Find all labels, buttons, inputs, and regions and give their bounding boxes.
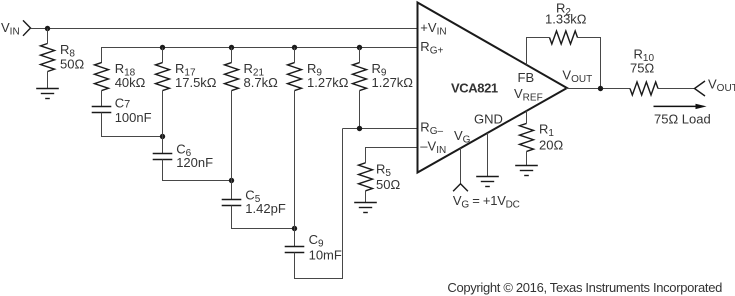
wire -VIN to amp <box>366 148 419 163</box>
wire R21 to C5 <box>231 91 233 200</box>
svg-text:75Ω: 75Ω <box>630 60 654 75</box>
svg-text:100nF: 100nF <box>115 110 152 125</box>
node rail R21 <box>229 45 234 50</box>
svg-text:VCA821: VCA821 <box>451 81 498 96</box>
resistor R1 <box>520 123 534 151</box>
label R10 75ohm <box>630 46 654 75</box>
output terminal VOUT chevron <box>695 81 706 96</box>
resistor R5 <box>359 163 373 191</box>
ground R5 <box>354 203 377 213</box>
label C6 120nF <box>176 141 213 170</box>
svg-text:50Ω: 50Ω <box>60 57 84 72</box>
label R2 1.33kohm <box>545 0 587 26</box>
capacitor C6 <box>153 154 173 160</box>
svg-text:FB: FB <box>518 70 535 85</box>
wire +VIN rail <box>31 28 419 30</box>
label C5 1.42pF <box>245 188 286 217</box>
label R9b 1.27kohm <box>372 61 414 90</box>
node RG- junction <box>357 126 362 131</box>
wire R9a to C9 <box>294 91 296 247</box>
node C <box>292 226 297 231</box>
ground R1 <box>515 166 538 176</box>
wire R8 top lead <box>47 29 49 44</box>
wire R10 to output <box>658 88 695 90</box>
label C9 10mF <box>309 232 342 263</box>
resistor R21 <box>225 63 239 91</box>
wire FB feedback loop <box>527 38 601 89</box>
svg-text:Copyright © 2016, Texas Instru: Copyright © 2016, Texas Instruments Inco… <box>447 280 722 295</box>
svg-text:1.27kΩ: 1.27kΩ <box>372 75 414 90</box>
node rail R9a <box>292 45 297 50</box>
svg-text:20Ω: 20Ω <box>539 137 563 152</box>
wire GND lead <box>487 133 489 177</box>
label R18 40kohm <box>115 61 146 90</box>
wire C7 to node A <box>102 113 163 137</box>
wire R9a top lead <box>294 48 296 63</box>
wire C6 to node B <box>163 160 232 181</box>
wire VOUT to R10 <box>566 88 630 90</box>
svg-text:1.27kΩ: 1.27kΩ <box>307 75 349 90</box>
node VOUT junction <box>598 86 603 91</box>
svg-text:75Ω Load: 75Ω Load <box>654 112 711 127</box>
wire C5 to node C <box>232 206 295 229</box>
svg-text:17.5kΩ: 17.5kΩ <box>175 75 217 90</box>
node B <box>229 178 234 183</box>
wire RG+ rail <box>102 48 419 64</box>
label R17 17.5kohm <box>175 61 217 90</box>
VG terminal chevron <box>453 184 468 192</box>
svg-text:8.7kΩ: 8.7kΩ <box>244 75 279 90</box>
svg-text:40kΩ: 40kΩ <box>115 75 146 90</box>
svg-text:C7: C7 <box>115 96 131 111</box>
wire R8 bottom lead <box>47 72 49 89</box>
wire VREF lead <box>526 111 528 124</box>
svg-text:10mF: 10mF <box>309 248 342 263</box>
resistor R10 <box>630 82 658 95</box>
node rail R17 <box>160 45 165 50</box>
svg-text:1.33kΩ: 1.33kΩ <box>545 11 587 26</box>
arrow load direction <box>654 104 707 109</box>
label R1 20ohm <box>539 121 563 152</box>
node rail R9b <box>357 45 362 50</box>
wire R9b bottom lead <box>359 91 361 129</box>
wire R21 top lead <box>231 48 233 63</box>
label R8 50ohm <box>60 42 84 71</box>
wire R1 bottom lead <box>526 151 528 165</box>
label R5 50ohm <box>376 162 400 192</box>
resistor R9b <box>353 63 367 91</box>
svg-text:50Ω: 50Ω <box>376 177 400 192</box>
capacitor C5 <box>222 200 242 206</box>
wire VG lead <box>460 148 462 183</box>
wire R18 to C7 <box>101 91 103 107</box>
resistor R8 <box>41 44 55 72</box>
capacitor C7 <box>92 107 112 113</box>
resistor R2 <box>550 31 578 44</box>
resistor R18 <box>95 63 109 91</box>
resistor R17 <box>156 63 170 91</box>
ground R8 <box>36 89 59 99</box>
wire C9 to RG- net <box>295 129 343 279</box>
wire R9b top lead <box>359 48 361 63</box>
svg-text:GND: GND <box>474 112 503 127</box>
ground GND pin <box>476 177 499 187</box>
wire R5 bottom lead <box>365 191 367 203</box>
node input junction <box>45 26 50 31</box>
label C7 100nF <box>115 96 152 126</box>
resistor R9a <box>288 63 302 91</box>
wire R17 top lead <box>162 48 164 63</box>
label R21 8.7kohm <box>244 61 279 90</box>
svg-text:1.42pF: 1.42pF <box>245 201 286 216</box>
node A <box>160 134 165 139</box>
input terminal VIN chevron <box>23 20 31 35</box>
svg-text:120nF: 120nF <box>176 155 213 170</box>
capacitor C9 <box>285 247 305 253</box>
wire R17 to C6 <box>162 91 164 154</box>
label R9a 1.27kohm <box>307 61 349 90</box>
wire RG- to amp <box>343 128 419 130</box>
op-amp U1 VCA821 triangle <box>418 3 568 173</box>
